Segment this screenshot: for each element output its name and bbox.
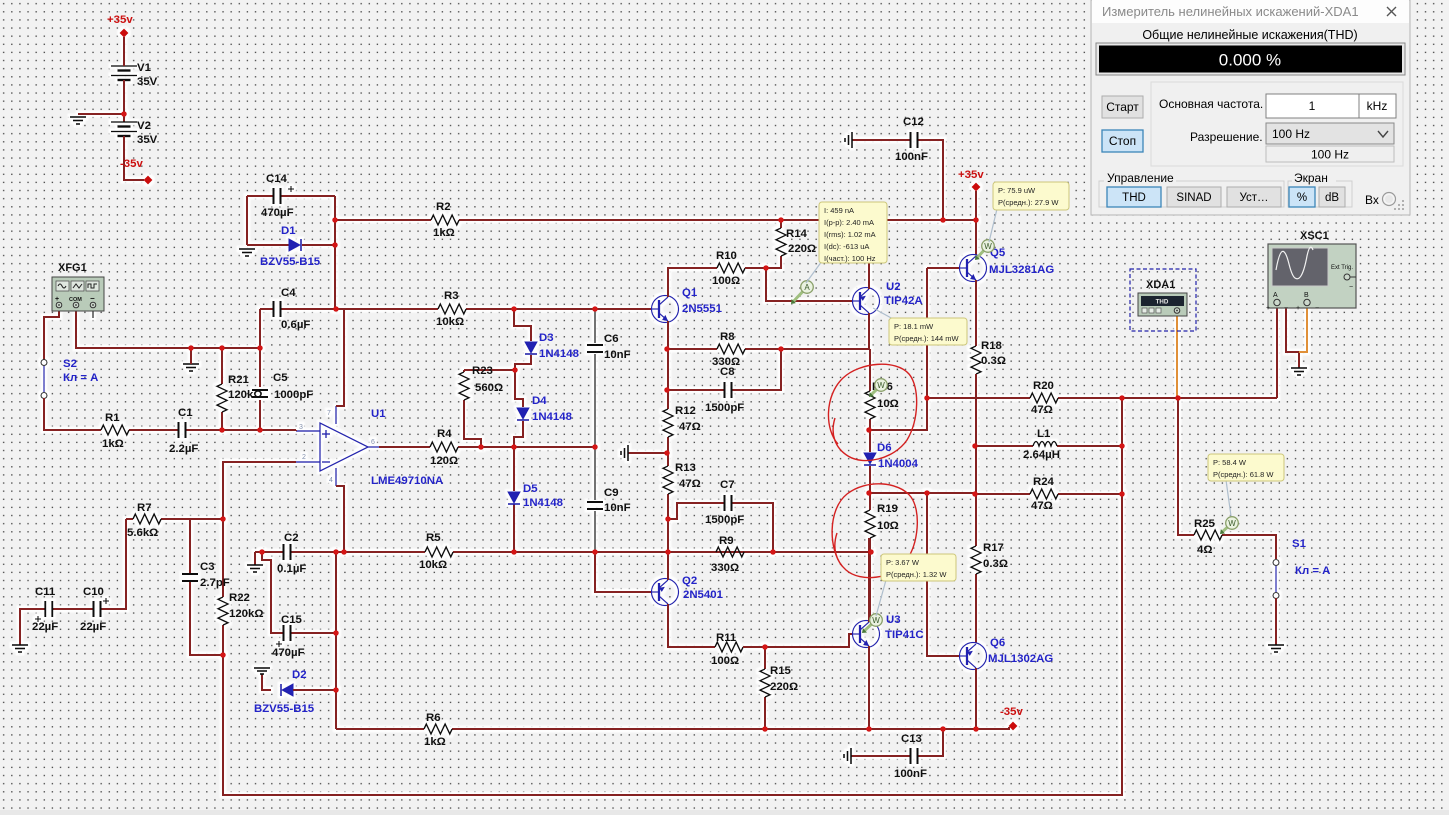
svg-text:C9: C9 xyxy=(604,487,619,499)
inductor L1 xyxy=(1033,442,1057,447)
svg-text:220Ω: 220Ω xyxy=(788,243,816,255)
wire C6-C9 column xyxy=(594,309,596,552)
wire R3 row xyxy=(336,308,651,310)
junction R23 bottom xyxy=(478,444,484,450)
junction R13 column / Q2 emitter xyxy=(665,549,671,555)
resistor R4 xyxy=(430,442,458,452)
wire D6 stem xyxy=(869,430,871,452)
wire D4 top xyxy=(515,370,523,407)
junction C7 right xyxy=(770,549,776,555)
wire scope B wire xyxy=(1299,306,1307,352)
junction Q6 xyxy=(973,726,979,732)
wire R7 row xyxy=(126,518,223,520)
svg-text:P: 3.67 W: P: 3.67 W xyxy=(886,558,920,567)
svg-text:Q6: Q6 xyxy=(990,637,1005,649)
svg-text:C11: C11 xyxy=(35,586,56,598)
probe A current probe xyxy=(794,292,803,302)
junction C7 branch xyxy=(665,516,671,522)
svg-text:330Ω: 330Ω xyxy=(711,562,739,574)
svg-text:S2: S2 xyxy=(63,358,77,370)
svg-text:+: + xyxy=(1296,305,1300,312)
wire COM ground stem xyxy=(190,348,192,364)
svg-text:W: W xyxy=(1228,519,1236,528)
wire R11 right xyxy=(743,646,765,648)
resistor R10 xyxy=(717,263,745,273)
wire C2 row xyxy=(255,551,871,553)
svg-text:35V: 35V xyxy=(137,134,158,146)
capacitor C15 470uF xyxy=(284,625,291,641)
wire XFG1 + to S2 xyxy=(44,309,59,360)
junction R21 bottom xyxy=(219,427,225,433)
junction feedback column xyxy=(1119,395,1125,401)
capacitor C8 1500pF xyxy=(725,382,732,398)
svg-text:47Ω: 47Ω xyxy=(679,421,701,433)
svg-text:R10: R10 xyxy=(716,250,737,262)
resistor R23 xyxy=(459,372,469,400)
junction C15 right xyxy=(333,630,339,636)
svg-text:P: 18.1 mW: P: 18.1 mW xyxy=(894,322,934,331)
wire U2 collector down xyxy=(868,313,870,349)
net connector +35v top xyxy=(120,29,129,38)
svg-text:120kΩ: 120kΩ xyxy=(228,389,262,401)
svg-text:2N5551: 2N5551 xyxy=(682,303,723,315)
svg-text:R23: R23 xyxy=(472,365,493,377)
svg-text:100 Hz: 100 Hz xyxy=(1311,148,1349,162)
svg-text:100 Hz: 100 Hz xyxy=(1272,127,1310,141)
resistor R2 xyxy=(431,215,459,225)
junction C5 bottom xyxy=(257,427,263,433)
junction Q6 base column xyxy=(924,490,930,496)
svg-text:10Ω: 10Ω xyxy=(877,398,899,410)
svg-text:1N4148: 1N4148 xyxy=(532,411,572,423)
svg-text:I: 459 nA: I: 459 nA xyxy=(824,206,854,215)
svg-text:35V: 35V xyxy=(137,76,158,88)
wire C4 row xyxy=(260,308,336,310)
net connector +35v mid xyxy=(972,183,981,192)
wire D3 bottom to node xyxy=(515,355,531,370)
wire mid ground stub xyxy=(628,452,668,454)
svg-text:BZV55-B15: BZV55-B15 xyxy=(260,256,321,268)
svg-text:4Ω: 4Ω xyxy=(1197,544,1212,556)
svg-text:C12: C12 xyxy=(903,116,924,128)
svg-text:+35v: +35v xyxy=(107,14,133,26)
svg-text:THD: THD xyxy=(1122,192,1146,204)
battery V2 xyxy=(111,122,137,136)
wire +35v drop xyxy=(975,191,977,255)
diode D5 xyxy=(508,492,520,504)
svg-text:Старт: Старт xyxy=(1106,100,1139,114)
diode D1 xyxy=(289,239,301,251)
svg-text:10kΩ: 10kΩ xyxy=(419,559,447,571)
junction D5 bottom xyxy=(511,549,517,555)
wire pin7 supply xyxy=(336,309,344,406)
wire S1 to ground xyxy=(1275,598,1277,645)
junction R4 to C6 column xyxy=(592,444,598,450)
ground C12 xyxy=(845,132,852,148)
wire R21 column xyxy=(221,348,223,430)
capacitor C11 22uF xyxy=(45,601,52,617)
svg-text:1: 1 xyxy=(1309,99,1316,113)
diode D6 xyxy=(864,453,876,465)
svg-text:−: − xyxy=(1349,284,1353,291)
resistor R17 xyxy=(971,546,981,574)
wire Q6 base column xyxy=(927,493,959,656)
svg-text:U1: U1 xyxy=(371,408,386,420)
svg-text:1kΩ: 1kΩ xyxy=(424,736,446,748)
probe W power probe U3 xyxy=(865,624,872,630)
wire R23 column xyxy=(464,370,481,447)
resistor R18 xyxy=(971,346,981,374)
svg-text:R14: R14 xyxy=(786,228,808,240)
wire U2 emitter up xyxy=(868,220,870,289)
svg-text:100Ω: 100Ω xyxy=(711,655,739,667)
svg-text:120kΩ: 120kΩ xyxy=(229,608,263,620)
wire R15 column xyxy=(764,647,766,729)
svg-text:W: W xyxy=(984,242,992,251)
svg-text:R24: R24 xyxy=(1033,476,1055,488)
svg-text:+35v: +35v xyxy=(958,169,984,181)
junction C15 branch xyxy=(259,549,265,555)
svg-text:-35v: -35v xyxy=(1000,706,1023,718)
annotation box power readout Q5 xyxy=(989,209,997,242)
svg-text:XDA1: XDA1 xyxy=(1146,279,1175,291)
svg-text:1kΩ: 1kΩ xyxy=(433,227,455,239)
junction R7/R22 xyxy=(220,516,226,522)
svg-text:560Ω: 560Ω xyxy=(475,382,503,394)
svg-text:Стоп: Стоп xyxy=(1109,134,1136,148)
junction D2/C15 column xyxy=(333,549,339,555)
svg-text:22µF: 22µF xyxy=(32,621,58,633)
svg-text:R18: R18 xyxy=(981,340,1002,352)
svg-text:100Ω: 100Ω xyxy=(712,275,740,287)
svg-text:kHz: kHz xyxy=(1367,99,1388,113)
svg-text:2: 2 xyxy=(302,454,306,461)
svg-text:C8: C8 xyxy=(720,366,735,378)
wire C2 ground stem xyxy=(254,552,256,565)
resistor R12 xyxy=(663,409,673,437)
svg-text:R5: R5 xyxy=(426,532,441,544)
svg-text:4: 4 xyxy=(329,477,333,484)
wire D1 row right xyxy=(302,244,335,246)
wire R23 top row xyxy=(464,369,515,371)
svg-text:R11: R11 xyxy=(716,632,737,644)
wire output rail xyxy=(975,374,977,643)
junction +35v drop xyxy=(973,217,979,223)
instrument XSC1 oscilloscope icon xyxy=(1266,230,1356,312)
svg-text:P(средн.): 27.9 W: P(средн.): 27.9 W xyxy=(998,198,1059,207)
junction R14 top xyxy=(778,217,784,223)
battery V1 xyxy=(111,66,137,80)
junction R24 right xyxy=(1119,491,1125,497)
svg-text:1500pF: 1500pF xyxy=(705,514,744,526)
junction L1 row xyxy=(972,443,978,449)
capacitor C7 1500pF xyxy=(725,495,732,511)
resistor R6 xyxy=(424,724,452,734)
svg-text:1N4148: 1N4148 xyxy=(539,348,579,360)
wire C13 row xyxy=(851,729,943,756)
svg-text:I(rms): 1.02 mA: I(rms): 1.02 mA xyxy=(824,230,876,239)
svg-text:A: A xyxy=(804,283,810,292)
junction D4 bottom xyxy=(511,444,517,450)
svg-text:%: % xyxy=(1297,192,1307,204)
svg-text:V1: V1 xyxy=(137,62,152,74)
svg-text:V2: V2 xyxy=(137,120,151,132)
capacitor C3 2.7pF xyxy=(182,574,198,581)
junction C8 right xyxy=(778,346,784,352)
svg-text:D6: D6 xyxy=(877,442,892,454)
net connector -35v left xyxy=(144,176,153,185)
junction C9 column / Q2 base xyxy=(592,549,598,555)
probe W power probe R16 xyxy=(872,389,877,394)
svg-text:Кл = A: Кл = A xyxy=(1295,565,1330,577)
annotation box current readout xyxy=(806,261,822,283)
svg-text:100nF: 100nF xyxy=(894,768,927,780)
ground mid xyxy=(621,445,628,461)
svg-text:R3: R3 xyxy=(444,290,459,302)
svg-text:100nF: 100nF xyxy=(895,151,928,163)
svg-text:22µF: 22µF xyxy=(80,621,106,633)
wire R2 row to +35 node xyxy=(335,219,976,221)
instrument XDA1 distortion analyzer icon xyxy=(1130,269,1196,331)
svg-text:120Ω: 120Ω xyxy=(430,455,458,467)
wire Q5 base column xyxy=(927,268,959,398)
probe W power probe R25 xyxy=(1223,527,1228,531)
wire D6 bottom xyxy=(869,466,871,493)
wire R1-C1 row xyxy=(129,429,296,431)
svg-text:−: − xyxy=(90,294,95,303)
svg-text:1500pF: 1500pF xyxy=(705,402,744,414)
svg-text:BZV55-B15: BZV55-B15 xyxy=(254,703,315,715)
svg-text:1000pF: 1000pF xyxy=(274,389,313,401)
THD analyzer dialog window xyxy=(1091,0,1410,215)
capacitor C14 470uF xyxy=(274,188,281,204)
svg-text:220Ω: 220Ω xyxy=(770,681,798,693)
resistor R7 xyxy=(133,514,161,524)
svg-text:P(средн.): 61.8 W: P(средн.): 61.8 W xyxy=(1213,470,1274,479)
transistor U2 TIP42A xyxy=(853,288,880,315)
svg-text:Разрешение.: Разрешение. xyxy=(1190,130,1263,144)
wire R14 column xyxy=(766,220,781,268)
wire V1 to V2 xyxy=(78,64,124,122)
capacitor C9 10nF xyxy=(587,502,603,509)
svg-text:Экран: Экран xyxy=(1294,171,1328,185)
wire R10 right to node xyxy=(745,267,766,269)
svg-text:C4: C4 xyxy=(281,287,296,299)
svg-text:0.3Ω: 0.3Ω xyxy=(983,558,1008,570)
svg-text:XSC1: XSC1 xyxy=(1300,230,1329,242)
svg-text:C14: C14 xyxy=(266,173,288,185)
junction R10/R14 xyxy=(763,265,769,271)
svg-text:C10: C10 xyxy=(83,586,104,598)
wire C10-C11 row xyxy=(20,519,126,645)
svg-text:D3: D3 xyxy=(539,332,554,344)
wire R24 row xyxy=(975,493,1122,495)
net connector -35v xyxy=(1009,722,1018,731)
ground D2 xyxy=(254,668,270,674)
junction C6 top xyxy=(592,306,598,312)
wire D2/C15 column xyxy=(335,552,337,729)
junction C4/C5 column xyxy=(257,345,263,351)
resistor R15 xyxy=(760,669,770,697)
svg-text:Кл = A: Кл = A xyxy=(63,372,98,384)
junction D1 right xyxy=(332,242,338,248)
wire Q1 collector xyxy=(668,268,717,297)
svg-text:I(p-p): 2.40 mA: I(p-p): 2.40 mA xyxy=(824,218,874,227)
svg-text:R20: R20 xyxy=(1033,380,1054,392)
diode D3 xyxy=(525,342,537,354)
wire R16 loop to Q5 base xyxy=(869,398,927,430)
junction R16 bottom xyxy=(866,427,872,433)
ground S1 xyxy=(1268,645,1284,652)
transistor Q5 MJL3281AG xyxy=(960,255,987,282)
junction R2 left on zener column xyxy=(332,217,338,223)
capacitor C4 0.6uF xyxy=(274,301,281,317)
wire U3 collector up xyxy=(868,538,870,622)
junction D3/D4/R23 xyxy=(512,367,518,373)
wire D4 bottom xyxy=(514,421,523,447)
wire R20 row xyxy=(927,397,1277,399)
svg-text:+: + xyxy=(1266,305,1270,312)
svg-text:C3: C3 xyxy=(200,561,215,573)
svg-text:R21: R21 xyxy=(228,374,250,386)
svg-text:1N4148: 1N4148 xyxy=(523,497,563,509)
svg-text:P: 58.4 W: P: 58.4 W xyxy=(1213,458,1247,467)
wire scope gnd wire xyxy=(1286,306,1299,368)
wire C15 branch xyxy=(262,552,336,633)
svg-text:XFG1: XFG1 xyxy=(58,262,87,274)
junction mid ground xyxy=(664,450,670,456)
resistor R1 xyxy=(101,425,129,435)
svg-text:470µF: 470µF xyxy=(272,647,305,659)
junction U3 emitter xyxy=(866,726,872,732)
switch S1 xyxy=(1275,564,1277,594)
wire U3 base wire xyxy=(765,634,852,647)
capacitor C10 22uF xyxy=(94,601,101,617)
svg-text:47Ω: 47Ω xyxy=(1031,500,1053,512)
svg-text:Основная частота.: Основная частота. xyxy=(1159,97,1263,111)
svg-text:LME49710NA: LME49710NA xyxy=(371,475,443,487)
wire D2 right xyxy=(293,689,336,691)
svg-text:L1: L1 xyxy=(1037,428,1051,440)
svg-text:1kΩ: 1kΩ xyxy=(102,438,124,450)
junction COM ground xyxy=(188,345,194,351)
svg-text:D5: D5 xyxy=(523,483,538,495)
ground power mid xyxy=(70,117,86,124)
capacitor C13 100nF xyxy=(911,748,918,764)
svg-text:2.64µH: 2.64µH xyxy=(1023,449,1060,461)
svg-text:MJL3281AG: MJL3281AG xyxy=(989,264,1054,276)
wire R25 column xyxy=(1178,398,1276,559)
svg-text:R12: R12 xyxy=(675,405,696,417)
junction R15 bottom xyxy=(762,726,768,732)
junction C8 row xyxy=(664,387,670,393)
ground C2 xyxy=(247,565,263,572)
wire driver wire to U2 base xyxy=(766,268,852,301)
wire XFG1 COM down xyxy=(76,309,260,348)
wire R19 column xyxy=(869,493,871,620)
junction L1 right xyxy=(1119,443,1125,449)
svg-text:1N4004: 1N4004 xyxy=(878,458,919,470)
junction R9 right xyxy=(868,549,874,555)
wire Q6 bottom xyxy=(975,668,977,729)
svg-text:SINAD: SINAD xyxy=(1176,192,1211,204)
svg-text:47Ω: 47Ω xyxy=(679,478,701,490)
resistor R16 xyxy=(865,391,875,419)
wire D2 ground stem xyxy=(262,674,271,690)
resistor R22 xyxy=(218,597,228,625)
ground COM xyxy=(183,364,199,371)
transistor Q1 2N5551 xyxy=(652,296,679,323)
ground C11 left xyxy=(12,645,28,652)
svg-text:C5: C5 xyxy=(273,372,288,384)
svg-text:R2: R2 xyxy=(436,201,451,213)
probe W power probe Q5 xyxy=(978,251,984,258)
svg-text:R15: R15 xyxy=(770,665,792,677)
instrument XFG1 function generator xyxy=(52,262,104,311)
wire pin4 supply xyxy=(336,486,344,552)
svg-text:Общие нелинейные искажения(THD: Общие нелинейные искажения(THD) xyxy=(1142,28,1357,42)
svg-text:C6: C6 xyxy=(604,333,619,345)
resistor R21 xyxy=(217,384,227,412)
wire C14 right column xyxy=(281,196,336,309)
svg-text:10nF: 10nF xyxy=(604,502,631,514)
svg-text:2.7pF: 2.7pF xyxy=(200,577,230,589)
svg-text:0.1µF: 0.1µF xyxy=(277,563,306,575)
ground C13 xyxy=(844,748,851,764)
wire bottom rail xyxy=(336,727,1009,729)
junction R25 column xyxy=(1175,395,1181,401)
svg-text:R8: R8 xyxy=(720,331,735,343)
svg-text:−: − xyxy=(1315,305,1319,312)
svg-text:C2: C2 xyxy=(284,532,299,544)
svg-text:10nF: 10nF xyxy=(604,349,631,361)
svg-text:C13: C13 xyxy=(901,733,922,745)
wire U3 emitter down xyxy=(868,646,870,729)
wire pin2 input xyxy=(223,462,296,519)
svg-text:TIP42A: TIP42A xyxy=(884,295,923,307)
resistor R5 xyxy=(425,547,453,557)
svg-text:10Ω: 10Ω xyxy=(877,520,899,532)
svg-text:470µF: 470µF xyxy=(261,207,294,219)
svg-text:R19: R19 xyxy=(877,503,898,515)
svg-text:W: W xyxy=(877,381,885,390)
svg-text:dB: dB xyxy=(1325,192,1339,204)
svg-text:R1: R1 xyxy=(105,412,120,424)
svg-text:D1: D1 xyxy=(281,225,296,237)
svg-text:B: B xyxy=(1304,292,1309,299)
junction D2 right xyxy=(333,687,339,693)
resistor R8 xyxy=(717,344,745,354)
svg-text:S1: S1 xyxy=(1292,538,1307,550)
junction C4/pin7 xyxy=(333,306,339,312)
annotation box power readout U3 xyxy=(876,580,886,616)
svg-text:R13: R13 xyxy=(675,462,696,474)
diode D4 xyxy=(517,408,529,420)
svg-text:7: 7 xyxy=(327,410,331,417)
wire C3 branch xyxy=(190,519,223,655)
wire Q1 emitter column xyxy=(667,321,669,552)
wire R4 row xyxy=(379,446,595,448)
svg-text:Q1: Q1 xyxy=(682,287,698,299)
wire +35V feed to V1 xyxy=(123,37,125,64)
svg-text:-35v: -35v xyxy=(120,158,143,170)
wire C12 row xyxy=(852,140,943,220)
svg-text:10kΩ: 10kΩ xyxy=(436,316,464,328)
junction R21 top xyxy=(219,345,225,351)
diode D2 xyxy=(281,684,293,696)
svg-text:P(средн.): 144 mW: P(средн.): 144 mW xyxy=(894,334,960,343)
wire R19 top row xyxy=(870,492,975,494)
